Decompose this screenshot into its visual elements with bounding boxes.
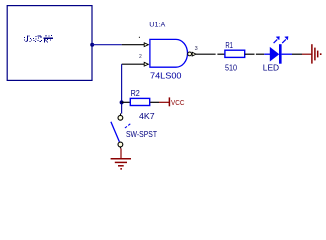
wire gate input 2 vertical <box>121 64 123 113</box>
pin number 1 <box>139 37 140 38</box>
block box (sensor) <box>7 6 92 81</box>
switch bottom contact circle <box>118 142 123 147</box>
pin 1 end indicator <box>144 43 148 47</box>
LED light arrow 1 <box>274 37 280 44</box>
resistor R1 body <box>225 50 245 57</box>
pin 3 lead of U1:A <box>196 53 216 55</box>
pin 1 lead of U1:A <box>122 44 145 46</box>
R2 right lead <box>150 101 159 103</box>
bottom ground symbol <box>111 159 131 166</box>
R2 left lead <box>122 101 131 103</box>
resistor R2 body <box>130 98 149 105</box>
wire R1 to LED <box>256 53 264 55</box>
node A junction dot at box output <box>90 43 94 47</box>
LED cathode lead <box>282 53 292 55</box>
LED anode lead <box>264 53 270 55</box>
pin 2 end indicator <box>144 62 148 66</box>
switch bottom pin stub <box>120 147 122 149</box>
R1 right lead <box>245 53 255 55</box>
node B junction dot <box>120 100 124 104</box>
LED D1 triangle <box>270 47 280 62</box>
VCC power symbol bar <box>168 97 170 106</box>
svg-text:R2: R2 <box>131 89 141 98</box>
switch blade (open) <box>111 122 120 142</box>
switch actuator tick <box>125 123 131 128</box>
wire gate output to R1 <box>217 53 224 55</box>
pin 3 end indicator <box>192 52 196 56</box>
svg-text:VCC: VCC <box>171 100 184 107</box>
right ground lead <box>302 53 311 55</box>
svg-text:74LS00: 74LS00 <box>150 70 182 80</box>
wire box output to gate input 1 <box>92 44 122 46</box>
box label (CJK glyphs approximated) <box>24 35 53 43</box>
pin 2 lead of U1:A <box>122 63 145 65</box>
svg-text:4K7: 4K7 <box>139 112 155 121</box>
svg-text:2: 2 <box>139 54 142 60</box>
op NAND gate U1:A body <box>150 39 188 67</box>
svg-text:SW-SPST: SW-SPST <box>126 130 157 139</box>
switch top contact circle <box>118 115 123 120</box>
svg-text:LED: LED <box>263 64 280 73</box>
right ground symbol (rotated) <box>312 44 318 63</box>
VCC power lead <box>159 101 169 103</box>
svg-text:U1:A: U1:A <box>149 22 166 29</box>
switch top pin stub <box>120 113 122 115</box>
inversion bubble <box>188 52 192 56</box>
svg-text:3: 3 <box>195 46 198 52</box>
LED light arrow 2 <box>282 37 288 44</box>
wire LED to ground <box>292 53 302 55</box>
bottom ground lead <box>120 148 122 158</box>
svg-text:510: 510 <box>225 64 237 73</box>
svg-text:R1: R1 <box>225 41 233 50</box>
LED cathode bar <box>279 44 282 64</box>
